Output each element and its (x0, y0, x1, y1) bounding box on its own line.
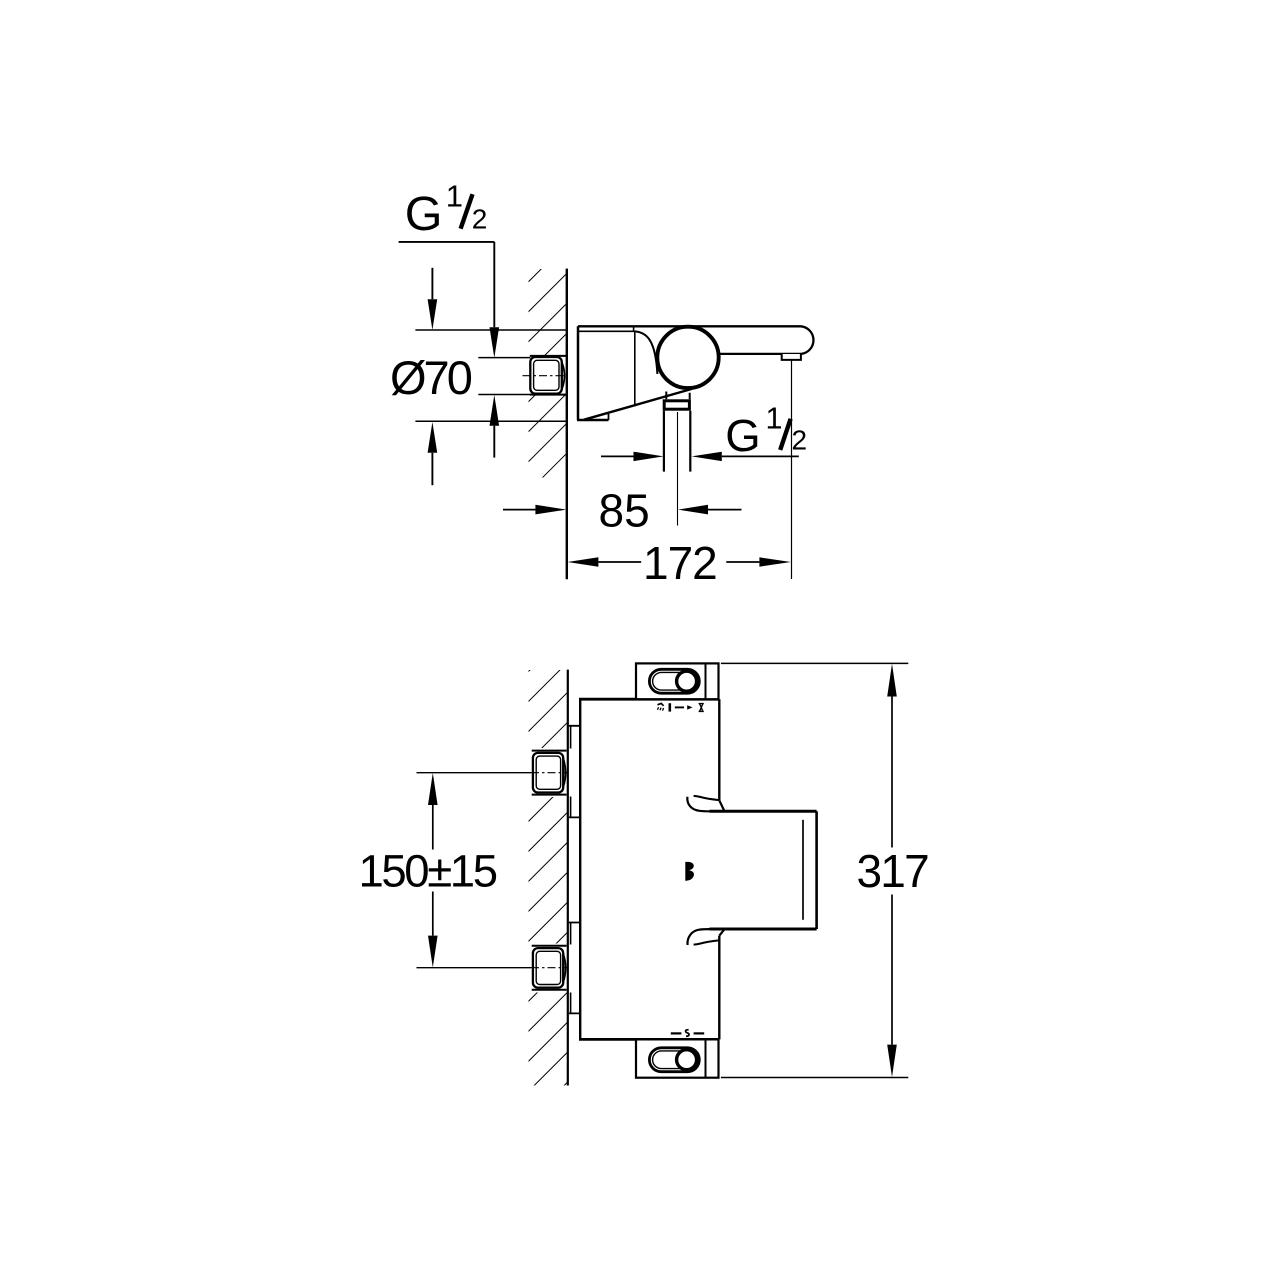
dimension G1/2 top: text (405, 179, 488, 241)
lower view: union fitting 2 washers (532, 946, 567, 990)
lower view: bottom marks (671, 1030, 704, 1036)
svg-text:85: 85 (599, 485, 650, 537)
dimension G1/2 top: leader lines (399, 241, 495, 243)
upper view: escutcheon foot notch (608, 414, 610, 420)
svg-text:2: 2 (472, 203, 488, 234)
dimension 172: line and arrows (568, 557, 599, 566)
lower view: union fitting 1 bulge arc (563, 759, 565, 788)
svg-text:G: G (405, 187, 443, 241)
lower view: control icons row (658, 703, 704, 711)
svg-text:1: 1 (766, 402, 783, 436)
lower view: escutcheon ring 2 profile (570, 923, 572, 1014)
dimension 150+-15: arrows (428, 773, 438, 805)
lower view: bottom mounting bracket (636, 1039, 719, 1077)
dimension 317: arrows (887, 664, 897, 697)
upper view: wall union pipe bulge arc (562, 362, 565, 389)
dimension D70: upper arrow (431, 268, 433, 299)
dimension G1/2 top: arrow up to fitting bottom (490, 395, 500, 426)
lower view: union fitting 1 washers (532, 751, 567, 795)
upper view: spout outlet nub (782, 354, 801, 360)
lower view: escutcheon ring 1 profile (570, 726, 572, 818)
lower view: union fitting 1 body (533, 753, 563, 793)
dimension G1/2 pipe: arrows (601, 455, 634, 457)
upper view: wall union fitting body (530, 357, 562, 394)
upper view: mixer top outline and spout (578, 326, 813, 354)
upper view: shower outlet neck lines (666, 392, 689, 400)
dimension 150+-15: extension lines (417, 773, 532, 968)
lower view: top mounting bracket (636, 663, 719, 699)
svg-text:317: 317 (857, 845, 929, 897)
dimension 85: arrows (503, 509, 535, 511)
upper view: wall union fitting washers (530, 356, 567, 395)
svg-text:G: G (725, 410, 760, 461)
dimension G1/2 pipe: text (725, 402, 807, 462)
upper view: escutcheon bottom foot (577, 419, 609, 422)
svg-text:1: 1 (446, 179, 463, 214)
dimension D70: lower arrow (428, 422, 438, 453)
lower view: valve protrusion (710, 811, 817, 929)
upper view: pipe center line (677, 412, 679, 526)
upper view: fitting center line dashed (523, 375, 568, 377)
dimension G1/2 top: arrow down to fitting top (490, 327, 500, 358)
lower view: upper handle hook (687, 796, 724, 811)
upper view: flange inner top line (579, 330, 635, 332)
upper view: shower outlet pipe (664, 411, 690, 472)
upper view: escutcheon flange left edge (577, 326, 580, 420)
wall line upper view (566, 269, 568, 580)
upper view: wall union fitting inner (534, 360, 559, 390)
lower view: lower handle hook (687, 929, 724, 945)
lower view: union fitting 2 inner (536, 951, 560, 984)
svg-text:Ø70: Ø70 (390, 351, 472, 404)
wall hatching upper view (528, 269, 567, 478)
dimension D70: extension lines (415, 330, 567, 421)
lower view: centre logo glyph (685, 862, 694, 881)
lower view: union fitting 2 body (533, 948, 563, 988)
upper view: flange right edge (634, 331, 636, 407)
lower view: union fitting 1 inner (536, 756, 560, 789)
wall line lower view (567, 670, 569, 1086)
lower view: union fitting 2 bulge arc (563, 954, 565, 983)
upper view: escutcheon slanted underside (584, 389, 692, 420)
dimension 150+-15: dashed center lines (531, 772, 568, 774)
upper view: fillet curve flange to knob (635, 331, 657, 374)
svg-text:2: 2 (792, 425, 808, 456)
dimension G1/2 top: extension stubs (478, 358, 530, 395)
svg-text:150±15: 150±15 (359, 846, 497, 897)
dimension 317: extension lines (721, 663, 908, 1077)
svg-text:172: 172 (643, 537, 717, 589)
dimension 172: spout extension line (791, 360, 793, 579)
upper view: flange step notch (633, 326, 635, 331)
lower view: thermostat body (579, 699, 719, 1039)
upper view: shower outlet nut (664, 401, 689, 409)
upper view: handle knob circle (657, 327, 718, 388)
wall hatching lower view (528, 670, 568, 1085)
